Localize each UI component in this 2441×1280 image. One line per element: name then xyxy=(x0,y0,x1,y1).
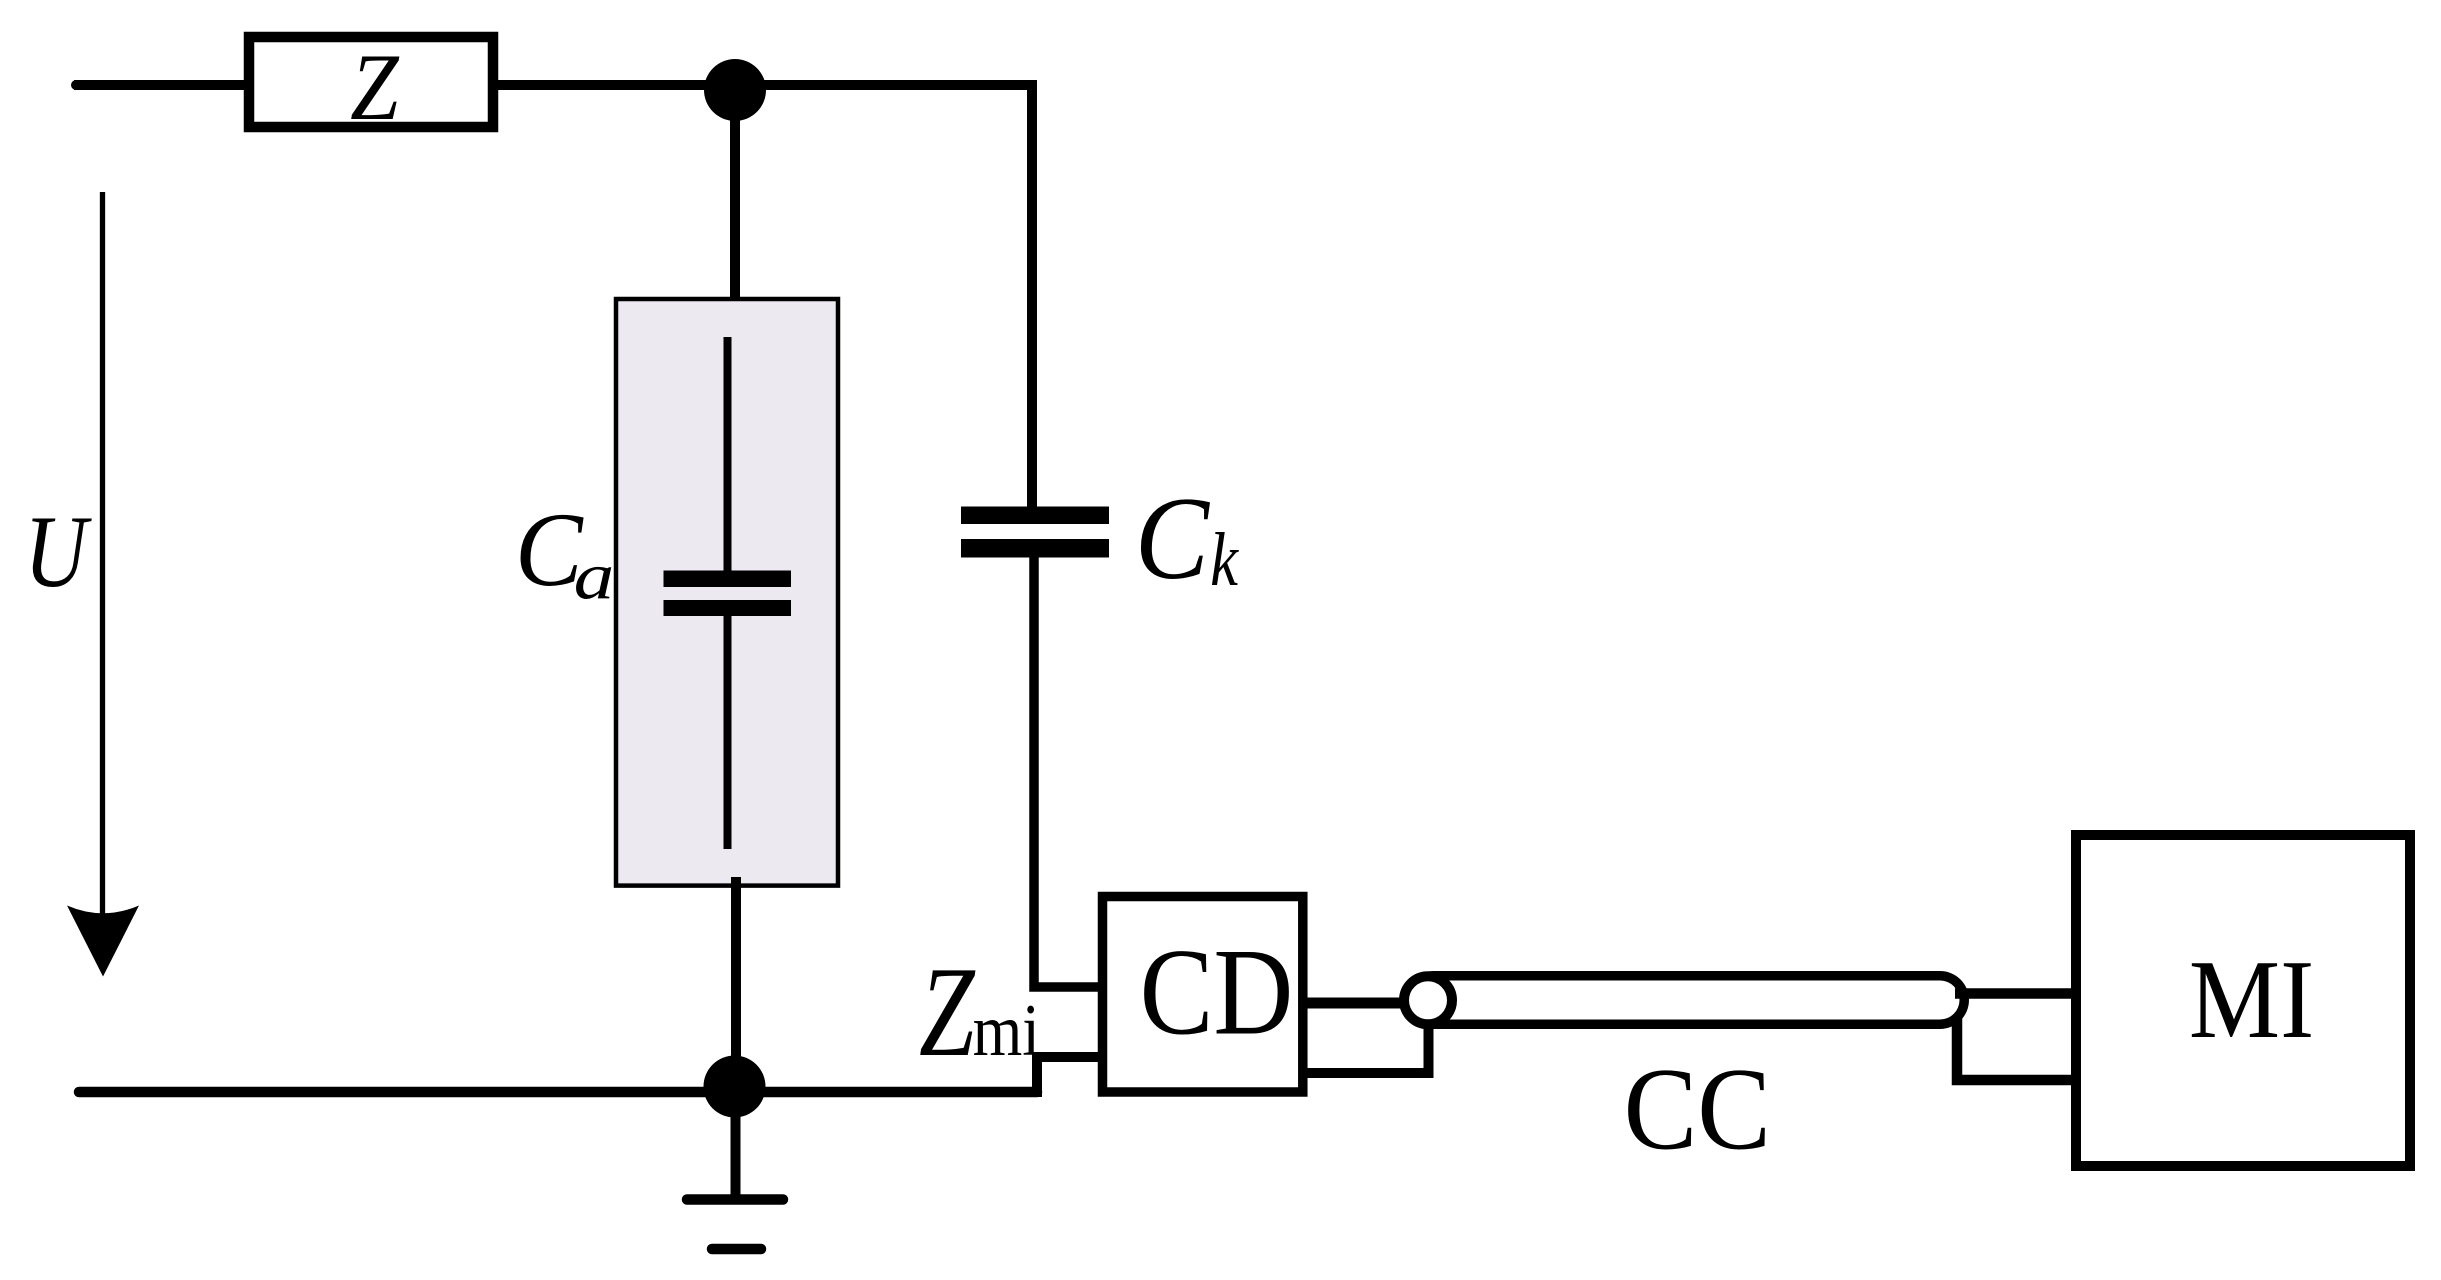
svg-text:CD: CD xyxy=(1140,924,1294,1061)
svg-text:Z: Z xyxy=(919,940,976,1083)
svg-text:C: C xyxy=(1135,473,1211,604)
svg-text:k: k xyxy=(1210,517,1240,602)
svg-text:Z: Z xyxy=(350,34,400,139)
svg-text:a: a xyxy=(574,540,615,613)
svg-text:U: U xyxy=(24,494,92,609)
svg-text:mi: mi xyxy=(973,988,1040,1071)
svg-text:CC: CC xyxy=(1624,1043,1771,1174)
svg-text:MI: MI xyxy=(2189,938,2314,1062)
